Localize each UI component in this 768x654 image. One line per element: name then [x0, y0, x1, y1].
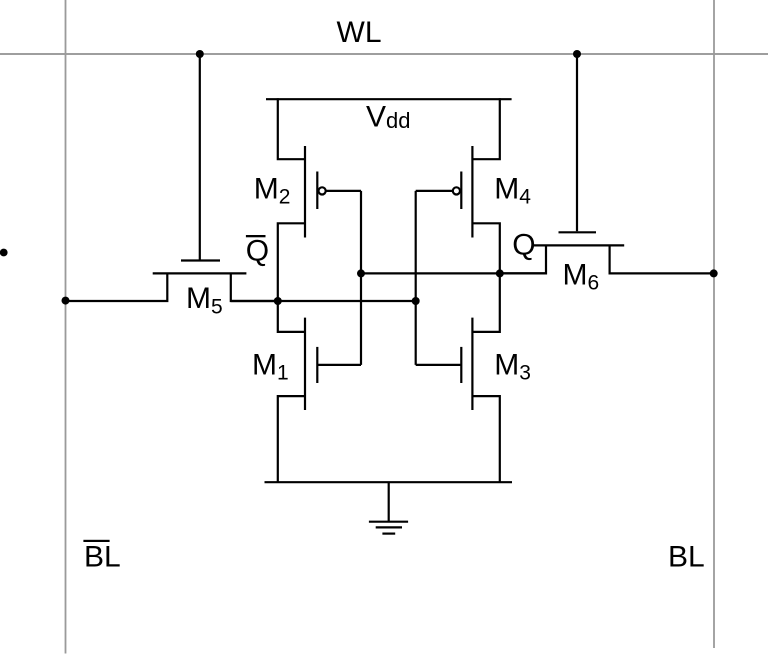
- transistor M3 source wire: [472, 396, 499, 482]
- svg-text:M4: M4: [494, 172, 531, 208]
- junction dot WL / M6 gate: [573, 50, 581, 58]
- transistor M1 gate bar: [316, 347, 318, 383]
- svg-text:M5: M5: [186, 282, 223, 318]
- junction dot node Qbar / right gates: [412, 297, 420, 305]
- svg-text:BL: BL: [84, 541, 121, 574]
- transistor M4 drain wire: [472, 223, 499, 274]
- overbar of BLbar: [83, 540, 109, 542]
- transistor M3 channel bar: [471, 318, 473, 410]
- stray dot at left margin: [0, 249, 8, 257]
- wire cross-coupling right gates vertical: [415, 191, 417, 365]
- junction dot BLbar / M5: [62, 297, 70, 305]
- transistor M5 right drain wire to node Qbar: [231, 273, 279, 301]
- svg-text:M3: M3: [494, 348, 531, 384]
- transistor M6 gate wire from WL: [576, 54, 578, 231]
- junction dot node Qbar / M5: [274, 297, 282, 305]
- svg-text:Vdd: Vdd: [366, 101, 411, 134]
- ground stem: [388, 482, 390, 521]
- transistor M4 gate bubble (PMOS): [453, 187, 460, 194]
- transistor M1 drain wire: [278, 300, 305, 332]
- junction dot WL / M5 gate: [196, 50, 204, 58]
- wire M3 gate to cross-coupling: [416, 364, 462, 366]
- svg-text:WL: WL: [337, 16, 382, 49]
- transistor M3 gate bar: [460, 347, 462, 383]
- junction dot BL / M6: [710, 269, 718, 277]
- junction dot node Q / M4-M3 drains: [496, 269, 504, 277]
- svg-text:M6: M6: [563, 258, 600, 294]
- ground symbol bar 1: [369, 521, 408, 523]
- svg-text:M2: M2: [254, 172, 291, 208]
- ground symbol bar 3: [382, 532, 395, 534]
- bit-line BL rail (right, gray): [713, 0, 715, 648]
- svg-text:Q: Q: [246, 235, 269, 268]
- transistor M2 drain wire: [278, 223, 305, 302]
- svg-text:Q: Q: [512, 229, 535, 262]
- transistor M2 gate bar: [316, 172, 318, 210]
- bit-line-bar BL rail (left, gray): [65, 0, 67, 654]
- wire cross-coupling left gates vertical: [360, 191, 362, 365]
- transistor M6 right drain wire to BL: [610, 245, 714, 273]
- wire M4 gate to cross-coupling: [416, 190, 453, 192]
- junction dot node Q / left gates: [357, 269, 365, 277]
- wire M1 gate to cross-coupling: [317, 364, 361, 366]
- transistor M2 channel bar: [304, 146, 306, 238]
- Vdd supply rail: [266, 98, 512, 100]
- transistor M4 gate bar: [460, 172, 462, 210]
- transistor M6 channel bar: [532, 244, 625, 246]
- transistor M1 source wire: [278, 396, 305, 482]
- word line WL rail (gray): [0, 53, 768, 55]
- overbar of Qbar: [246, 235, 266, 237]
- svg-text:M1: M1: [252, 348, 289, 384]
- transistor M2 source wire: [278, 98, 305, 159]
- svg-text:BL: BL: [668, 541, 705, 574]
- transistor M6 gate bar: [559, 231, 597, 233]
- transistor M4 source wire: [472, 98, 499, 159]
- wire M2 gate to cross-coupling: [326, 190, 362, 192]
- transistor M2 gate bubble (PMOS): [319, 187, 326, 194]
- wire node Q horizontal: [361, 272, 546, 274]
- transistor M6 left source wire to node Q: [499, 245, 546, 273]
- transistor M5 gate bar: [181, 259, 220, 261]
- wire node Qbar horizontal: [231, 300, 416, 302]
- transistor M1 channel bar: [304, 318, 306, 410]
- transistor M5 gate wire from WL: [199, 54, 201, 260]
- transistor M5 left source wire to BLbar: [66, 273, 168, 301]
- transistor M5 channel bar: [153, 272, 247, 274]
- transistor M3 drain wire: [472, 272, 499, 332]
- transistor M4 channel bar: [471, 146, 473, 238]
- ground symbol bar 2: [376, 526, 402, 528]
- ground rail: [265, 481, 513, 483]
